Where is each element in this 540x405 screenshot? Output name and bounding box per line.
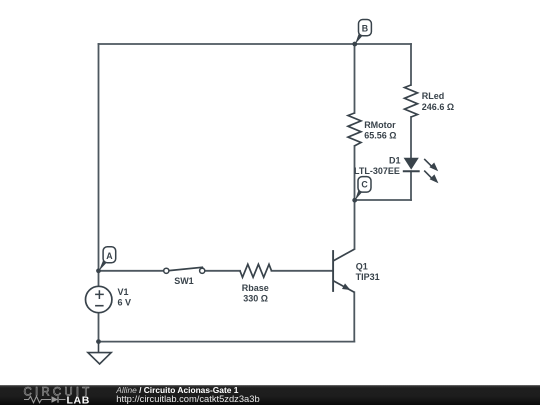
svg-text:SW1: SW1	[174, 276, 194, 286]
node A flag	[99, 247, 116, 271]
resistor Rbase	[240, 264, 272, 277]
label SW1	[174, 276, 194, 286]
wire D1 cathode down	[410, 171, 412, 200]
junction dot node C	[352, 198, 357, 203]
svg-text:Rbase: Rbase	[242, 283, 269, 293]
svg-text:TIP31: TIP31	[356, 272, 380, 282]
label Q1 value	[356, 262, 380, 283]
junction dot node B	[352, 42, 357, 47]
LED light arrow 2	[424, 171, 438, 184]
junction dot bottom rail	[96, 339, 101, 344]
wire node C to right branch	[355, 199, 412, 201]
label V1 value	[118, 287, 132, 307]
svg-text:A: A	[106, 251, 113, 261]
node B flag	[355, 20, 371, 45]
wire Rbase to Q1 base	[272, 270, 333, 272]
svg-text:D1: D1	[389, 155, 401, 165]
wire RMotor to node C	[354, 146, 356, 200]
svg-text:RLed: RLed	[422, 91, 445, 101]
junction dot node A	[96, 268, 101, 273]
label Rbase value	[242, 283, 269, 304]
wire node A to SW1	[99, 270, 164, 272]
svg-text:6 V: 6 V	[118, 298, 132, 308]
label RLed value	[422, 91, 454, 112]
CircuitLab logo	[0, 384, 110, 405]
resistor RLed	[405, 85, 418, 117]
svg-text:V1: V1	[118, 287, 129, 297]
label D1 value	[354, 155, 401, 176]
switch SW1	[164, 267, 205, 273]
svg-text:LAB: LAB	[67, 394, 90, 405]
node C flag	[355, 177, 371, 201]
wire V1 minus to bottom rail	[98, 313, 100, 342]
svg-text:RMotor: RMotor	[364, 120, 396, 130]
footer caption	[116, 386, 259, 403]
svg-text:C: C	[361, 180, 368, 190]
svg-text:B: B	[362, 23, 368, 33]
wire node A to V1 plus	[98, 271, 100, 287]
svg-text:65.56 Ω: 65.56 Ω	[364, 130, 396, 140]
wire left vertical	[98, 44, 100, 271]
wire SW1 to Rbase	[205, 270, 240, 272]
ground	[88, 342, 111, 364]
svg-text:Q1: Q1	[356, 262, 368, 272]
transistor Q1	[333, 249, 354, 292]
wire top right corner to RLed	[410, 44, 412, 85]
wire Q1 emitter to bottom rail	[353, 292, 355, 341]
LED light arrow 1	[424, 159, 438, 171]
svg-text:246.6 Ω: 246.6 Ω	[422, 102, 454, 112]
wire RLed to D1 anode	[410, 117, 412, 158]
wire top rail B	[99, 43, 412, 45]
resistor RMotor	[348, 113, 361, 146]
svg-text:330 Ω: 330 Ω	[243, 294, 268, 304]
voltage source V1	[86, 286, 112, 312]
LED D1	[403, 158, 420, 172]
wire node C to Q1 collector	[354, 200, 356, 249]
wire bottom rail	[99, 341, 355, 343]
label RMotor value	[364, 120, 396, 140]
svg-text:LTL-307EE: LTL-307EE	[354, 166, 400, 176]
wire node B down to RMotor	[354, 44, 356, 113]
